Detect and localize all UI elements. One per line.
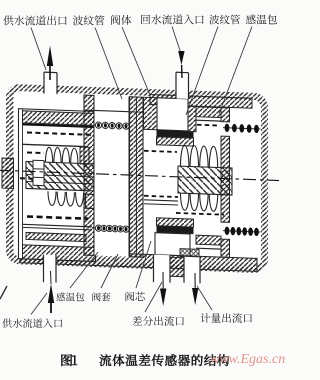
label sensing bulb (bottom) [56, 292, 84, 301]
label differential outlet [133, 316, 184, 326]
leader bellows right [186, 27, 218, 116]
leader supply outlet [31, 28, 46, 71]
sleeve top-right strata [196, 107, 221, 118]
bellows left: lower hatched strip [26, 232, 86, 241]
bellows left: bold dashed line lower [27, 216, 88, 218]
sleeve dashed line mid left [144, 151, 177, 152]
label supply inlet (bottom left) [2, 318, 62, 327]
channel top lip line [84, 110, 143, 112]
metering outlet pipe (bottom right) [184, 257, 200, 284]
guide wall left of middle channel [84, 95, 94, 255]
return inlet channel (white) [157, 98, 188, 131]
valve core bottom plate (dark) [157, 226, 194, 234]
valve core hatched strip below plate [157, 137, 194, 146]
centerline (dash-dot axis) [0, 170, 279, 180]
spring lower left [48, 191, 84, 206]
leader metering outlet [197, 286, 212, 310]
bellows left: dashed convolution line 2 [27, 151, 44, 154]
bellows left: bottom hatched band [23, 245, 96, 262]
bellows left: dashed convolution line 1 [27, 132, 92, 134]
label metering outlet [200, 313, 251, 323]
label valve body [111, 15, 131, 25]
bellows guide bracket [80, 147, 89, 164]
supply outlet pipe (top left) [44, 72, 57, 94]
bellows left: separator line [23, 144, 89, 146]
flow arrow up (supply inlet) [48, 284, 54, 304]
sleeve dashed line upper right [197, 124, 220, 127]
leader differential outlet [145, 282, 162, 312]
sleeve wall right of channel [188, 106, 196, 131]
guide wall right of middle channel [130, 97, 144, 257]
sleeve dashed line lower left [144, 196, 178, 197]
valve core top plate (dark) [157, 130, 194, 138]
leader valve core [136, 241, 151, 288]
sleeve right wall [221, 108, 230, 122]
spring lower right [181, 193, 218, 211]
sleeve lower separator lines [144, 200, 178, 201]
spring upper left [46, 147, 78, 163]
flow arrow down (metering outlet) [192, 288, 198, 305]
spring upper right [181, 145, 218, 167]
bellows left: lower separator lines [23, 224, 93, 227]
sleeve dashed line lower right [176, 213, 224, 215]
leader supply inlet [31, 293, 47, 315]
valve core lower hatched strip [157, 218, 194, 227]
spring bead row upper (middle channel) [95, 125, 131, 126]
bellows end plates (left of divider) [33, 160, 44, 185]
label bellows (top right) [209, 15, 240, 25]
outlet chamber below core (white) [155, 233, 190, 256]
valve body inner top wall (right) [150, 95, 252, 109]
bellows center dashed stub [20, 177, 45, 180]
label valve sleeve [92, 292, 110, 301]
flow arrow down (return inlet) [178, 51, 184, 65]
bellows assembly left: outline [19, 109, 96, 262]
center divider hatched band right [178, 166, 232, 195]
valve sleeve left wall [144, 97, 158, 129]
leader valve body [122, 27, 150, 95]
sensing bulb bellows chain upper [223, 128, 261, 129]
watermark www.Egas.cn [210, 352, 285, 368]
label valve core [126, 292, 145, 302]
sleeve lower-right strata [196, 235, 221, 245]
middle channel (white) [94, 95, 129, 256]
flow arrow up (supply outlet) [47, 46, 53, 67]
outer shell (sensor housing, hatched wall) [6, 84, 268, 274]
caption title [100, 354, 230, 366]
body block between outlet pipes [170, 257, 184, 277]
flow arrow down (differential outlet) [160, 289, 166, 307]
leader sensing bulb bottom [70, 252, 98, 288]
valve body bottom wall band [20, 250, 257, 272]
metering crosshatch block [180, 249, 199, 258]
leader sensing bulb top [219, 27, 252, 115]
supply inlet pipe (bottom left) [44, 255, 57, 283]
leader valve sleeve [101, 254, 118, 288]
stray mark at left edge [0, 286, 7, 299]
left wall flange boss [2, 158, 14, 188]
caption figure number [61, 354, 77, 366]
label sensing bulb (top right) [246, 14, 277, 24]
spring seat block [86, 194, 98, 208]
leader bellows left [95, 28, 122, 100]
shell interior cavity [14, 91, 262, 266]
label return inlet (top right) [141, 14, 204, 24]
label bellows (top left) [73, 15, 105, 25]
label supply outlet (top left) [3, 15, 66, 25]
sensing bulb bellows chain lower [223, 231, 261, 232]
spring bead row lower (middle channel) [95, 228, 131, 229]
bellows left: top hatched strip [23, 111, 96, 126]
center divider hatched band left [26, 161, 96, 191]
differential outlet pipe (bottom middle) [154, 255, 171, 283]
leader return inlet [172, 27, 181, 53]
return inlet pipe (top right) [176, 72, 189, 99]
